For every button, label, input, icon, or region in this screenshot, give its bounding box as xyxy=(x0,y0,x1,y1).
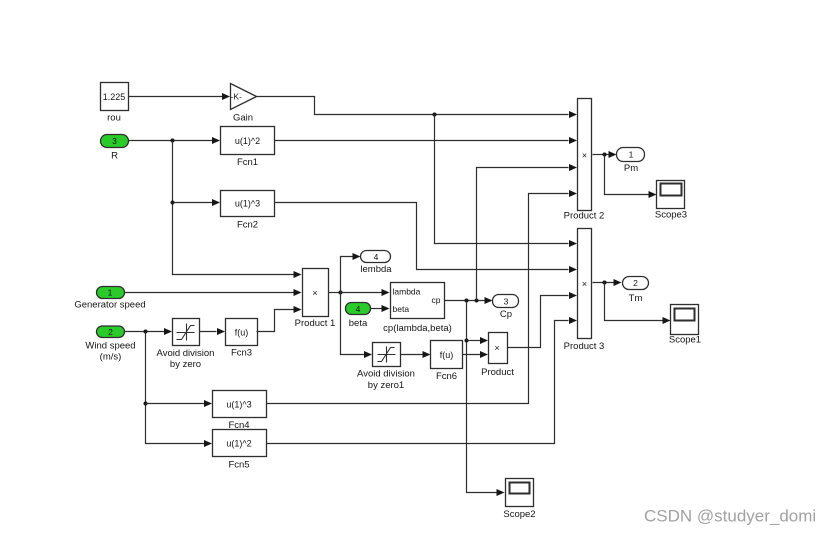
wire Product 1 up to outport lembda xyxy=(341,253,361,293)
wire Product 1 to cp block lambda input xyxy=(341,289,390,296)
svg-text:(m/s): (m/s) xyxy=(100,352,122,363)
product block Product 2 xyxy=(564,99,605,222)
inport 4 beta (green) xyxy=(346,303,371,330)
outport 2 Tm xyxy=(623,277,649,305)
wire Product 3 to outport Tm xyxy=(593,279,622,286)
product block Product xyxy=(481,333,514,379)
function block Fcn6 f(u) xyxy=(431,341,463,383)
wire cp branch up to Product 2 input 3 xyxy=(477,164,578,301)
scope block Scope3 xyxy=(655,181,687,221)
wire Avoid division by zero1 to Fcn6 xyxy=(401,351,431,358)
svg-text:Gain: Gain xyxy=(233,113,253,124)
wire Fcn4 to Product 2 input 4 xyxy=(267,190,578,404)
wire cp output to outport Cp xyxy=(445,297,493,304)
svg-text:lembda: lembda xyxy=(360,264,392,275)
svg-text:by zero1: by zero1 xyxy=(368,380,404,391)
scope block Scope1 xyxy=(669,305,701,346)
wire Product 1 output junction xyxy=(329,291,343,295)
svg-text:Fcn3: Fcn3 xyxy=(231,348,252,359)
svg-text:1: 1 xyxy=(629,150,634,160)
wire cp branch to Product input 1 xyxy=(467,337,489,344)
wire Product to Product 3 input 3 xyxy=(508,292,578,348)
svg-text:R: R xyxy=(111,151,118,162)
svg-text:1: 1 xyxy=(108,288,113,298)
svg-text:Pm: Pm xyxy=(624,163,638,174)
wire Fcn5 to Product 3 input 4 xyxy=(267,317,578,444)
wire Product 1 down to Avoid division by zero1 xyxy=(341,293,373,359)
wire Fcn6 to Product input 2 xyxy=(463,351,489,358)
svg-text:beta: beta xyxy=(393,304,410,314)
constant block rou (1.225) xyxy=(101,83,129,124)
svg-text:Fcn6: Fcn6 xyxy=(436,371,457,382)
svg-text:f(u): f(u) xyxy=(235,327,249,337)
svg-text:Fcn2: Fcn2 xyxy=(237,220,258,231)
svg-text:Product 2: Product 2 xyxy=(564,211,605,222)
svg-text:f(u): f(u) xyxy=(440,350,454,360)
wire Wind speed to Avoid division by zero xyxy=(125,328,173,335)
wire Avoid division by zero to Fcn3 xyxy=(200,328,226,335)
svg-text:Generator speed: Generator speed xyxy=(74,300,145,311)
svg-text:lambda: lambda xyxy=(393,287,421,297)
svg-text:Fcn5: Fcn5 xyxy=(228,460,249,471)
svg-text:by zero: by zero xyxy=(170,359,201,370)
wire R branch down to Fcn2 and Product 1 input 1 xyxy=(171,141,302,279)
wire Wind speed branch down to Fcn4 and Fcn5 xyxy=(144,332,213,448)
function block Fcn2 u(1)^3 xyxy=(221,191,275,231)
svg-text:4: 4 xyxy=(356,304,361,314)
svg-text:Product 1: Product 1 xyxy=(295,318,336,329)
svg-text:CSDN @studyer_domi: CSDN @studyer_domi xyxy=(644,507,816,526)
product block Product 1 xyxy=(295,269,336,330)
wire branch Gain signal down to Product 3 input 1 xyxy=(435,115,578,248)
wire branch to Fcn4 input xyxy=(146,400,213,407)
function block Fcn3 f(u) xyxy=(226,319,258,359)
function block Fcn5 u(1)^2 xyxy=(213,430,267,471)
svg-text:beta: beta xyxy=(349,318,368,329)
svg-text:Avoid division: Avoid division xyxy=(357,369,415,380)
svg-text:Product 3: Product 3 xyxy=(564,341,605,352)
inport 1 Generator speed (green) xyxy=(74,287,145,311)
outport 4 lembda xyxy=(360,251,392,276)
svg-text:Scope1: Scope1 xyxy=(669,335,701,346)
wire Fcn2 to Product 3 input 2 xyxy=(275,203,578,274)
svg-text:2: 2 xyxy=(633,278,638,288)
wire Product 2 branch down to Scope3 xyxy=(605,155,657,199)
wire Fcn1 to Product 2 input 2 xyxy=(275,137,578,144)
svg-text:3: 3 xyxy=(112,136,117,146)
svg-text:Wind speed: Wind speed xyxy=(85,341,135,352)
svg-text:×: × xyxy=(312,288,317,298)
scope block Scope2 xyxy=(503,479,535,521)
product block Product 3 xyxy=(564,229,605,353)
svg-text:Scope3: Scope3 xyxy=(655,210,687,221)
svg-text:Cp: Cp xyxy=(500,309,512,320)
wire Product 3 branch down to Scope1 xyxy=(605,283,671,325)
wire beta to cp block xyxy=(371,305,390,312)
function block Fcn4 u(1)^3 xyxy=(213,391,267,432)
svg-text:Tm: Tm xyxy=(629,293,643,304)
subsystem block cp(lambda,beta) xyxy=(383,283,452,335)
svg-text:cp: cp xyxy=(432,295,441,305)
saturation block Avoid division by zero1 xyxy=(357,343,415,392)
svg-text:Avoid division: Avoid division xyxy=(157,348,215,359)
svg-text:1.225: 1.225 xyxy=(103,92,126,102)
svg-text:cp(lambda,beta): cp(lambda,beta) xyxy=(383,323,452,334)
svg-text:u(1)^3: u(1)^3 xyxy=(235,199,260,209)
wire R branch to Fcn2 input xyxy=(173,199,221,206)
outport 1 Pm xyxy=(617,148,645,175)
svg-text:u(1)^3: u(1)^3 xyxy=(226,399,251,409)
svg-text:4: 4 xyxy=(374,252,379,262)
svg-text:u(1)^2: u(1)^2 xyxy=(235,136,260,146)
svg-text:rou: rou xyxy=(107,113,121,124)
wire Generator speed to Product 1 input 2 xyxy=(125,289,302,296)
wire rou to Gain xyxy=(129,93,231,100)
svg-text:×: × xyxy=(494,343,499,353)
inport 3 R (green) xyxy=(101,135,129,162)
function block Fcn1 u(1)^2 xyxy=(221,127,275,169)
svg-text:Fcn1: Fcn1 xyxy=(237,157,258,168)
wire Fcn3 to Product 1 input 3 xyxy=(257,306,302,332)
svg-text:3: 3 xyxy=(504,297,509,307)
wire Gain to Product 2 input 1 xyxy=(257,97,578,119)
wire cp branch down to Product input 1 and Scope2 xyxy=(465,301,505,497)
svg-text:u(1)^2: u(1)^2 xyxy=(226,438,251,448)
svg-text:×: × xyxy=(582,279,587,289)
gain block Gain (-K-) xyxy=(231,84,257,124)
svg-text:×: × xyxy=(582,151,587,161)
svg-text:2: 2 xyxy=(108,327,113,337)
outport 3 Cp xyxy=(493,295,519,321)
svg-text:-K-: -K- xyxy=(231,92,243,102)
inport 2 Wind speed (green) xyxy=(85,326,135,363)
saturation block Avoid division by zero xyxy=(157,319,215,371)
svg-text:Scope2: Scope2 xyxy=(503,509,535,520)
wire R to Fcn1 xyxy=(129,137,221,144)
wire Product 2 to outport Pm xyxy=(593,151,617,158)
svg-text:Product: Product xyxy=(481,367,514,378)
